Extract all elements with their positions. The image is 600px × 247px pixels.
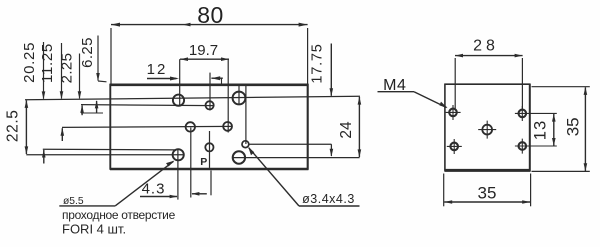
extension through P hole xyxy=(209,131,211,168)
hole P port xyxy=(205,143,213,151)
arrowhead 12 right-part xyxy=(211,76,220,80)
arrowhead 17.75 bottom xyxy=(330,88,334,96)
dimension 12 hook to plate edge xyxy=(221,78,223,84)
dimension 28 right extension xyxy=(521,58,523,110)
extension line from plate top to tiny hole xyxy=(245,85,247,144)
arrowhead 4.3 left-part xyxy=(170,195,178,199)
dimension 19.7 right extension through hole mid-right xyxy=(227,59,229,132)
dimension 4.3 left line xyxy=(140,196,177,198)
dimension 20.25 upper arrow stem xyxy=(43,42,45,99)
extension below mid-left hole xyxy=(190,128,192,198)
dimension 2.25 upper arrow stem xyxy=(79,54,81,99)
arrowhead 22.5 top xyxy=(25,100,29,108)
arrowhead 20.25 down xyxy=(42,91,46,99)
dimension 35 bottom right extension xyxy=(530,174,532,207)
svg-text:28: 28 xyxy=(473,38,499,55)
svg-text:ø5.5: ø5.5 xyxy=(63,196,84,207)
hole T top-middle small xyxy=(206,101,214,109)
svg-text:20.25: 20.25 xyxy=(21,42,38,83)
datum line through holes A and B xyxy=(25,96,360,100)
center line through hole B vertical xyxy=(238,85,240,105)
dimension 24 line xyxy=(358,97,360,157)
hole mid-right xyxy=(223,122,232,131)
arrowhead 6.25 up xyxy=(95,100,99,108)
plate outline left view bottom edge xyxy=(110,168,308,171)
extension below P hole xyxy=(210,171,212,196)
svg-text:13: 13 xyxy=(532,120,550,140)
arrowhead 11.25 up xyxy=(61,128,65,136)
right view square top edge xyxy=(445,83,530,85)
arrowhead 80 left xyxy=(111,23,120,27)
plate outline left view left edge xyxy=(109,84,111,170)
arrowhead 20.25 up xyxy=(42,150,46,158)
arrowhead 24 bottom xyxy=(358,149,362,157)
arrowhead 35 right top xyxy=(584,87,588,95)
svg-text:35: 35 xyxy=(563,117,582,136)
arrowhead 24 top xyxy=(358,97,362,105)
arrowhead 11.25 down xyxy=(60,91,64,99)
arrowhead 2.25 up xyxy=(80,105,84,113)
right view square left edge xyxy=(444,84,446,171)
dimension 12 left arrow line xyxy=(147,78,177,80)
reference line from tiny hole xyxy=(249,143,332,145)
leader phi3.4 underline xyxy=(299,205,360,207)
leader phi3.4 diagonal xyxy=(249,148,299,206)
arrowhead tiny-drop down xyxy=(330,149,334,157)
extension below bottom-left hole xyxy=(177,150,179,200)
dimension 13 line xyxy=(553,114,555,146)
dimension 2.25 lower arrow stem xyxy=(81,105,83,115)
dimension 28 line xyxy=(455,55,523,57)
arrowhead 13 top xyxy=(552,114,556,122)
svg-text:6.25: 6.25 xyxy=(79,37,96,68)
arrowhead 19.7 right xyxy=(221,57,229,61)
right view hole top-left xyxy=(449,109,457,117)
arrowhead 12 left-part xyxy=(170,77,179,81)
svg-text:4.3: 4.3 xyxy=(142,181,166,198)
arrowhead 35 right bottom xyxy=(584,163,588,171)
arrowhead 2.25 down xyxy=(78,91,82,99)
drop from tiny hole line to bottom-right line xyxy=(330,144,332,156)
arrowhead 28 right xyxy=(515,54,523,58)
arrowhead 6.25 hook down xyxy=(96,73,100,81)
svg-text:19.7: 19.7 xyxy=(189,42,218,59)
svg-text:проходное отверстие: проходное отверстие xyxy=(62,208,176,222)
hole mid-left xyxy=(186,122,195,131)
dimension 35 right top extension xyxy=(532,86,590,88)
arrowhead 35 bottom left xyxy=(444,200,452,204)
svg-text:12: 12 xyxy=(147,61,168,78)
leader phi5.5 underline xyxy=(59,205,115,207)
dimension 28 left extension xyxy=(454,58,456,109)
reference line through mid holes xyxy=(62,126,233,127)
reference line above bottom-left hole xyxy=(43,148,176,151)
right view hole top-right xyxy=(519,110,527,118)
reference line through hole T xyxy=(81,105,214,106)
svg-text:ø3.4x4.3: ø3.4x4.3 xyxy=(302,192,355,206)
arrowhead phi5.5 leader xyxy=(166,161,174,167)
dimension 35 right bottom extension xyxy=(532,170,590,172)
dimension 35 bottom left extension xyxy=(443,174,445,207)
arrowhead 35 bottom right xyxy=(522,200,530,204)
dimension 22.5 line xyxy=(25,100,27,154)
extension through hole T xyxy=(209,73,211,111)
svg-text:M4: M4 xyxy=(383,77,406,94)
dimension 35 right line xyxy=(584,87,586,171)
line overdraw blip on 80 line xyxy=(183,23,191,27)
arrowhead phi3.4 leader xyxy=(248,147,254,155)
svg-text:2.25: 2.25 xyxy=(59,53,76,84)
dimension 4.3 right line xyxy=(192,193,207,195)
dimension 20.25 lower arrow stem xyxy=(43,150,45,164)
dimension 19.7 left extension through hole A xyxy=(179,59,181,106)
svg-text:80: 80 xyxy=(197,2,224,28)
hole tiny pilot xyxy=(242,141,249,148)
dimension 80 line xyxy=(111,24,308,26)
right view hole bottom-right xyxy=(519,142,527,150)
M4 leader xyxy=(414,92,447,108)
right view square bottom edge xyxy=(444,169,530,172)
reference line through bottom-right hole xyxy=(233,157,360,159)
arrowhead 4.3 right-part xyxy=(191,192,199,196)
svg-text:22.5: 22.5 xyxy=(4,110,21,143)
svg-text:24: 24 xyxy=(338,121,355,139)
arrowhead 28 left xyxy=(455,54,463,58)
dimension 11.25 lower arrow stem xyxy=(61,128,63,141)
connector segment under stems xyxy=(81,112,103,114)
svg-text:P: P xyxy=(200,156,207,168)
arrowhead 80 right xyxy=(299,23,308,27)
reference line through bottom-left hole xyxy=(26,154,183,156)
dimension 19.7 line xyxy=(180,58,229,60)
dimension 17.75 line xyxy=(330,44,332,96)
dimension 6.25 stem and hook xyxy=(98,36,107,82)
right view square right edge xyxy=(529,84,531,172)
svg-text:17.75: 17.75 xyxy=(310,43,326,83)
arrowhead 13 bottom xyxy=(552,138,556,146)
plate outline left view right edge xyxy=(307,84,309,170)
right view center hole xyxy=(482,125,492,135)
svg-text:11.25: 11.25 xyxy=(39,43,56,83)
dimension 12 right arrow line xyxy=(211,77,222,79)
arrowhead 19.7 left xyxy=(180,57,188,61)
hole bottom-right xyxy=(233,151,245,163)
arrowhead M4 leader xyxy=(439,102,447,109)
plate outline left view top edge xyxy=(110,84,308,87)
svg-text:35: 35 xyxy=(478,184,497,203)
dimension 80 left extension xyxy=(110,28,112,84)
dimension 6.25 lower arrow stem xyxy=(96,101,98,114)
arrowhead 22.5 bottom xyxy=(25,146,29,154)
M4 underline xyxy=(378,91,415,93)
hole bottom-left xyxy=(173,149,184,160)
right view hole bottom-left xyxy=(450,143,458,151)
hole B top-right xyxy=(233,92,246,105)
dimension 11.25 upper arrow stem xyxy=(61,43,63,99)
dimension 80 right extension xyxy=(307,28,309,96)
dimension 35 bottom line xyxy=(444,201,530,203)
hole A top-left xyxy=(173,95,184,106)
leader phi5.5 diagonal xyxy=(115,161,173,206)
svg-text:FORI 4 шт.: FORI 4 шт. xyxy=(62,222,126,237)
